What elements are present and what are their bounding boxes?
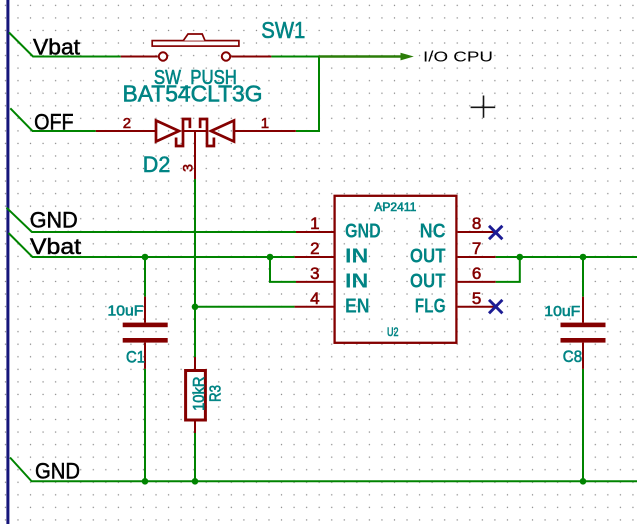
D2 pin 1 stub bbox=[234, 130, 296, 132]
wire Vbat rail bbox=[9, 233, 295, 257]
svg-text:C1: C1 bbox=[126, 348, 145, 367]
wire U2 pin 6 up to output rail bbox=[496, 257, 520, 282]
wire C8 bottom to GND rail bbox=[582, 369, 584, 481]
wire EN node to U2 pin 4 bbox=[195, 306, 295, 308]
diode D2 dual schottky bbox=[96, 115, 296, 179]
U2 pin 3 stub bbox=[296, 281, 334, 283]
svg-text:10uF: 10uF bbox=[108, 302, 144, 319]
svg-text:R3: R3 bbox=[208, 385, 225, 402]
U2 pin 5 stub bbox=[458, 306, 496, 308]
junction at out rail/pin6 bbox=[517, 254, 524, 261]
svg-text:SW1: SW1 bbox=[261, 17, 305, 43]
C8 top plate bbox=[561, 323, 606, 328]
U2 body rectangle bbox=[335, 196, 457, 343]
wire from SW1 to corner and down to D2 pin 1 bbox=[271, 57, 319, 132]
cursor crosshair bbox=[471, 96, 496, 118]
svg-text:EN: EN bbox=[345, 295, 370, 317]
no-connect X on pin 5 bbox=[489, 300, 502, 313]
capacitor C1 bbox=[123, 297, 168, 369]
wire D2 pin3 down through rail to EN node bbox=[194, 179, 196, 307]
capacitor C8 bbox=[561, 297, 606, 369]
D2 pin 3 stub bbox=[194, 131, 196, 179]
D2 left schottky cathode bbox=[176, 119, 190, 146]
wire C1 bottom to GND rail bbox=[144, 369, 146, 481]
svg-text:1: 1 bbox=[261, 115, 269, 132]
U2 pin 4 stub bbox=[295, 306, 334, 308]
svg-text:C8: C8 bbox=[563, 347, 582, 366]
U2 pin 1 stub bbox=[296, 231, 334, 233]
junction at out rail/C8 bbox=[580, 254, 587, 261]
svg-text:OUT: OUT bbox=[410, 270, 446, 292]
svg-text:2: 2 bbox=[310, 239, 319, 258]
svg-text:3: 3 bbox=[180, 164, 196, 172]
SW1 actuator bar bbox=[152, 41, 239, 47]
wire output rail down to C8 bbox=[582, 257, 584, 297]
svg-text:BAT54CLT3G: BAT54CLT3G bbox=[123, 81, 263, 107]
junction at rail/pin3 branch bbox=[267, 254, 274, 261]
D2 right schottky cathode bbox=[200, 119, 214, 146]
wire rail branch down to C1 bbox=[144, 257, 146, 297]
SW1 button bump bbox=[183, 34, 205, 41]
svg-text:Vbat: Vbat bbox=[33, 35, 80, 60]
svg-text:1: 1 bbox=[310, 214, 319, 233]
wire GND entry to U2 pin 1 bbox=[7, 208, 297, 232]
C8 top pin stub bbox=[582, 297, 584, 323]
svg-text:GND: GND bbox=[345, 221, 381, 243]
svg-text:OFF: OFF bbox=[34, 110, 74, 135]
wire R3 bottom to GND rail bbox=[194, 433, 196, 481]
svg-text:8: 8 bbox=[472, 214, 481, 233]
C1 bottom pin stub bbox=[144, 343, 146, 369]
wire Vbat top entry bbox=[9, 33, 121, 57]
U2 pin 8 stub bbox=[458, 231, 496, 233]
junction at GND rail/R3 bbox=[192, 478, 199, 485]
resistor R3 bbox=[186, 357, 206, 433]
C8 bottom plate bbox=[561, 338, 606, 343]
junction at EN node bbox=[192, 304, 199, 311]
C1 top plate bbox=[123, 323, 168, 328]
U2 pin 2 stub bbox=[295, 256, 334, 258]
pin stub right of SW1 bbox=[231, 56, 271, 58]
svg-text:4: 4 bbox=[310, 289, 319, 308]
svg-text:U2: U2 bbox=[387, 325, 399, 339]
R3 top pin stub bbox=[194, 357, 196, 371]
junction at GND rail/C8 bbox=[580, 478, 587, 485]
svg-text:D2: D2 bbox=[143, 152, 171, 177]
svg-text:IN: IN bbox=[345, 270, 368, 292]
D2 center crossbar bbox=[183, 130, 207, 132]
svg-text:I/O CPU: I/O CPU bbox=[423, 48, 493, 65]
wire GND bottom rail bbox=[10, 458, 637, 482]
svg-text:Vbat: Vbat bbox=[30, 234, 81, 259]
wire OFF entry bbox=[10, 108, 96, 131]
svg-text:GND: GND bbox=[30, 208, 78, 233]
svg-text:10kR: 10kR bbox=[191, 377, 208, 411]
C1 bottom plate bbox=[123, 338, 168, 343]
SW1 left contact circle bbox=[159, 52, 167, 60]
wire U2 pin 7 output rail bbox=[496, 256, 637, 258]
svg-text:7: 7 bbox=[472, 239, 481, 258]
sheet border left edge bbox=[6, 0, 9, 524]
svg-text:2: 2 bbox=[123, 115, 131, 132]
svg-text:IN: IN bbox=[345, 246, 368, 268]
op-amp U2 body AP2411 bbox=[295, 196, 496, 343]
wire rail branch to U2 pin 3 bbox=[270, 257, 296, 282]
D2 right anode triangle bbox=[211, 121, 234, 142]
junction at GND rail/C1 bbox=[142, 478, 149, 485]
D2 left anode triangle bbox=[156, 121, 179, 142]
svg-text:NC: NC bbox=[420, 221, 446, 243]
svg-text:AP2411: AP2411 bbox=[374, 200, 416, 214]
svg-text:10uF: 10uF bbox=[544, 303, 580, 320]
graphic arrow to I/O CPU bbox=[319, 53, 414, 61]
junction at rail/C1 bbox=[142, 254, 149, 261]
C8 bottom pin stub bbox=[582, 343, 584, 369]
wire EN node down to R3 bbox=[194, 307, 196, 357]
svg-text:FLG: FLG bbox=[415, 295, 446, 317]
switch SW1 bbox=[121, 34, 272, 61]
svg-text:5: 5 bbox=[472, 289, 481, 308]
D2 pin 2 stub bbox=[96, 130, 156, 132]
C1 top pin stub bbox=[144, 297, 146, 323]
svg-text:3: 3 bbox=[310, 264, 319, 283]
svg-text:OUT: OUT bbox=[410, 246, 446, 268]
svg-text:GND: GND bbox=[35, 459, 80, 484]
R3 body bbox=[186, 371, 206, 421]
SW1 right contact circle bbox=[222, 52, 230, 60]
U2 pin 6 stub bbox=[458, 281, 496, 283]
U2 pin 7 stub bbox=[458, 256, 496, 258]
svg-text:6: 6 bbox=[472, 264, 481, 283]
pin stub left of SW1 bbox=[121, 56, 158, 58]
R3 bottom pin stub bbox=[194, 420, 196, 433]
no-connect X on pin 8 bbox=[489, 226, 502, 239]
